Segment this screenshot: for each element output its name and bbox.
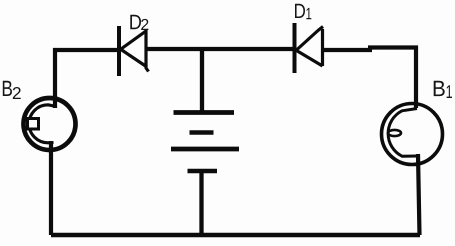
wire left vertical (bottom): [49, 141, 53, 235]
wire right vertical (bottom): [418, 154, 420, 235]
wire top-right horizontal: [323, 48, 419, 51]
B1 inner arc: [388, 109, 417, 157]
wire top-middle horizontal: [146, 47, 294, 51]
D1 cathode bar: [293, 23, 297, 73]
label B1: [434, 81, 452, 98]
diode D1: [295, 23, 324, 73]
B2 filament square: [28, 119, 39, 130]
B2 outer circle: [24, 98, 76, 150]
diode D2: [119, 26, 149, 76]
wire bottom horizontal: [51, 233, 420, 237]
battery bottom lead wire: [199, 171, 203, 237]
lamp B2: [24, 98, 76, 150]
D2 cathode bar: [117, 26, 121, 76]
battery plate long lower: [171, 147, 239, 152]
wire top-left horizontal: [53, 48, 119, 52]
B1 outer circle: [382, 104, 443, 165]
label D1: [295, 4, 311, 19]
battery: [171, 49, 239, 237]
wire right vertical (top): [414, 46, 418, 108]
battery plate long top: [174, 110, 235, 115]
lamp B1: [382, 104, 443, 165]
B2 inner arc: [29, 105, 57, 143]
D2 triangle: [121, 29, 149, 72]
battery plate short upper: [190, 130, 214, 135]
B1 filament loop: [388, 130, 401, 136]
wire left vertical (top): [53, 48, 57, 108]
label B2: [3, 81, 21, 99]
D1 triangle: [297, 27, 324, 67]
battery top lead wire: [200, 49, 204, 112]
label D2: [130, 15, 148, 30]
battery plate short bottom: [188, 169, 218, 174]
